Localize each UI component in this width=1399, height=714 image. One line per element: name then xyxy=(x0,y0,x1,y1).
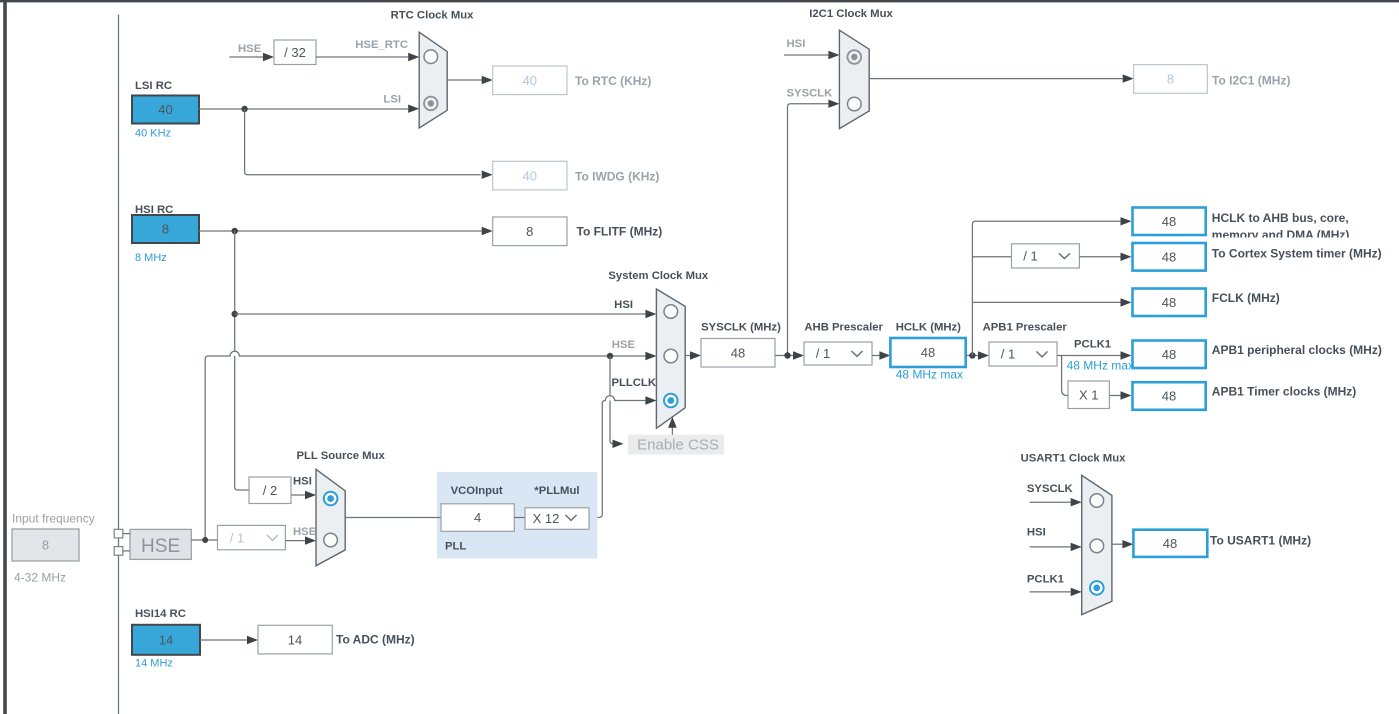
wire PCLK1 stub to USART1 mux xyxy=(1030,591,1071,593)
svg-text:40 KHz: 40 KHz xyxy=(135,128,171,140)
wire VCOInput to PLLMul xyxy=(514,517,525,519)
wire bus to FCLK xyxy=(972,301,1120,303)
svg-text:To Cortex System timer (MHz): To Cortex System timer (MHz) xyxy=(1212,247,1382,261)
wire PCLK1 xyxy=(1057,355,1121,357)
svg-text:X 1: X 1 xyxy=(1079,388,1099,403)
output To IWDG (KHz) xyxy=(493,161,660,190)
svg-text:48: 48 xyxy=(1162,347,1176,362)
svg-text:FCLK (MHz): FCLK (MHz) xyxy=(1212,291,1280,305)
register VCOInput xyxy=(441,504,514,532)
svg-text:To ADC (MHz): To ADC (MHz) xyxy=(336,632,415,646)
svg-text:HSI: HSI xyxy=(787,38,806,50)
svg-text:48: 48 xyxy=(1163,536,1177,551)
multiplier X1 xyxy=(1068,381,1109,409)
junction HSE output xyxy=(202,537,208,543)
svg-text:/ 1: / 1 xyxy=(1023,249,1037,264)
svg-text:To RTC (KHz): To RTC (KHz) xyxy=(575,74,651,88)
svg-text:VCOInput: VCOInput xyxy=(451,485,503,497)
vertical source rail xyxy=(118,15,120,714)
svg-text:HSE: HSE xyxy=(293,526,317,538)
svg-text:HCLK (MHz): HCLK (MHz) xyxy=(896,321,961,333)
source HSE xyxy=(130,529,191,559)
wire HSI stub to USART1 mux xyxy=(1030,546,1071,548)
divider /2 xyxy=(249,477,291,504)
dropdown HSE prescaler /1 (disabled) xyxy=(218,525,286,549)
wire SYSCLK to AHB prescaler xyxy=(775,355,793,357)
svg-text:APB1 Prescaler: APB1 Prescaler xyxy=(983,322,1068,334)
wire RTC mux output xyxy=(447,79,482,81)
mux PLL Source Mux xyxy=(296,450,385,566)
svg-text:*PLLMul: *PLLMul xyxy=(534,485,579,497)
svg-text:Enable CSS: Enable CSS xyxy=(637,436,719,453)
svg-text:APB1 Timer clocks (MHz): APB1 Timer clocks (MHz) xyxy=(1212,384,1357,398)
register SYSCLK (MHz) xyxy=(701,321,781,367)
svg-text:/ 2: / 2 xyxy=(263,483,277,498)
svg-text:40: 40 xyxy=(158,102,172,117)
svg-text:PLL: PLL xyxy=(445,541,466,553)
svg-text:X 12: X 12 xyxy=(533,511,560,526)
source HSI RC xyxy=(132,204,199,264)
block PLL xyxy=(437,472,598,559)
source HSI14 RC xyxy=(132,608,200,669)
output To I2C1 (MHz) xyxy=(1134,65,1291,94)
svg-text:HCLK to AHB bus, core,: HCLK to AHB bus, core, xyxy=(1212,211,1349,225)
svg-text:SYSCLK (MHz): SYSCLK (MHz) xyxy=(701,321,781,333)
svg-text:AHB Prescaler: AHB Prescaler xyxy=(804,321,883,333)
wire SYSCLK to I2C1 mux xyxy=(788,104,829,356)
svg-text:Input frequency: Input frequency xyxy=(12,511,95,525)
wire PLLCLK to system mux (with hop) xyxy=(605,396,614,401)
svg-text:HSE: HSE xyxy=(141,536,180,557)
svg-text:PCLK1: PCLK1 xyxy=(1027,574,1064,586)
wire HSI vertical branch xyxy=(235,231,249,490)
svg-text:HSE: HSE xyxy=(238,43,262,55)
wire X1 to APB1 timer output xyxy=(1109,395,1120,397)
svg-text:8: 8 xyxy=(162,222,169,237)
output To USART1 (MHz) xyxy=(1133,530,1311,557)
svg-text:14 MHz: 14 MHz xyxy=(135,657,173,669)
svg-text:HSE_RTC: HSE_RTC xyxy=(355,39,408,51)
svg-text:8: 8 xyxy=(526,224,533,239)
control Enable CSS xyxy=(628,435,724,455)
svg-text:SYSCLK: SYSCLK xyxy=(1027,483,1074,495)
junction SYSCLK xyxy=(784,352,790,358)
wire HSE prescaler to PLL mux xyxy=(285,540,305,542)
junction HCLK xyxy=(969,352,975,358)
svg-text:USART1 Clock Mux: USART1 Clock Mux xyxy=(1021,453,1127,465)
svg-text:APB1 peripheral clocks (MHz): APB1 peripheral clocks (MHz) xyxy=(1212,343,1382,357)
wire HSE output xyxy=(191,539,217,541)
output HCLK to AHB bus xyxy=(1133,208,1350,242)
wire Enable CSS to mux (up arrow) xyxy=(671,428,673,435)
junction HSE at system mux xyxy=(607,353,613,359)
svg-text:48 MHz max: 48 MHz max xyxy=(1067,358,1134,372)
svg-text:48 MHz max: 48 MHz max xyxy=(896,367,963,381)
wire LSI to IWDG xyxy=(245,109,481,175)
svg-text:HSI: HSI xyxy=(1027,527,1046,539)
svg-text:14: 14 xyxy=(288,632,302,647)
wire AHB prescaler to HCLK xyxy=(872,355,879,357)
svg-text:LSI RC: LSI RC xyxy=(135,80,172,92)
svg-text:/ 32: / 32 xyxy=(284,45,306,60)
mux System Clock Mux xyxy=(608,270,709,428)
wire SYSCLK stub to USART1 mux xyxy=(1030,501,1071,503)
output To RTC (KHz) xyxy=(493,66,652,95)
svg-text:/ 1: / 1 xyxy=(816,346,830,361)
output To FLITF (MHz) xyxy=(493,217,663,246)
svg-text:/ 1: / 1 xyxy=(1001,347,1015,362)
svg-text:To I2C1 (MHz): To I2C1 (MHz) xyxy=(1212,73,1290,87)
svg-text:48: 48 xyxy=(1162,295,1176,310)
junction HSI at system mux row xyxy=(232,311,238,317)
svg-text:8: 8 xyxy=(42,538,49,553)
dropdown Cortex prescaler /1 xyxy=(1012,244,1080,268)
divider /32 xyxy=(274,40,316,65)
svg-text:PLLCLK: PLLCLK xyxy=(611,377,656,389)
input Input frequency xyxy=(12,511,95,584)
output To Cortex System timer (MHz) xyxy=(1133,243,1382,271)
pin connector lower xyxy=(114,547,123,556)
svg-text:To FLITF (MHz): To FLITF (MHz) xyxy=(577,225,663,239)
register HCLK (MHz) xyxy=(890,321,965,381)
wire HSI14 to ADC xyxy=(200,639,247,641)
svg-text:PLL Source Mux: PLL Source Mux xyxy=(296,450,385,462)
svg-text:48: 48 xyxy=(1162,250,1176,265)
wire connectors to HSE xyxy=(123,534,130,551)
junction HSI xyxy=(232,228,238,234)
wire HSE to Enable CSS xyxy=(610,356,614,444)
svg-text:LSI: LSI xyxy=(383,93,401,105)
dropdown AHB Prescaler /1 xyxy=(804,321,883,365)
wire bus to Cortex prescaler xyxy=(972,256,1011,258)
wire HCLK to APB1 prescaler xyxy=(966,355,978,357)
svg-text:8 MHz: 8 MHz xyxy=(135,252,167,264)
svg-text:System Clock Mux: System Clock Mux xyxy=(608,270,709,282)
wire PLL mux output to VCOInput xyxy=(345,517,441,519)
wire HCLK distribution bus xyxy=(972,221,1120,355)
source LSI RC xyxy=(132,80,199,140)
mux USART1 Clock Mux xyxy=(1021,453,1127,615)
svg-text:4: 4 xyxy=(474,510,481,525)
svg-text:To USART1 (MHz): To USART1 (MHz) xyxy=(1210,534,1311,548)
wire I2C1 mux output xyxy=(869,78,1122,80)
wire USART1 mux output xyxy=(1112,543,1123,545)
svg-text:48: 48 xyxy=(1162,214,1176,229)
svg-text:8: 8 xyxy=(1167,72,1174,87)
wire LSI to RTC mux xyxy=(199,108,408,110)
wire HSI to System Clock Mux xyxy=(235,313,646,315)
svg-text:4-32 MHz: 4-32 MHz xyxy=(14,570,66,584)
output FCLK (MHz) xyxy=(1133,289,1280,317)
svg-text:PCLK1: PCLK1 xyxy=(1074,339,1111,351)
junction LSI xyxy=(241,106,247,112)
svg-text:To IWDG (KHz): To IWDG (KHz) xyxy=(575,170,659,184)
wire HSE vertical and to system mux (with hop) xyxy=(230,351,239,356)
svg-text:RTC Clock Mux: RTC Clock Mux xyxy=(391,9,475,21)
wire PCLK1 to X1 multiplier xyxy=(1062,356,1068,396)
svg-text:SYSCLK: SYSCLK xyxy=(787,88,834,100)
dropdown PLLMul X12 xyxy=(525,508,589,530)
output APB1 peripheral clocks (MHz) xyxy=(1133,341,1382,369)
svg-text:I2C1 Clock Mux: I2C1 Clock Mux xyxy=(809,8,893,20)
output APB1 Timer clocks (MHz) xyxy=(1133,382,1357,410)
wire system mux output xyxy=(685,355,690,357)
wire Cortex prescaler to output xyxy=(1079,256,1120,258)
svg-text:48: 48 xyxy=(921,345,935,360)
pin connector upper xyxy=(114,529,123,538)
output To ADC (MHz) xyxy=(258,625,415,654)
mux RTC Clock Mux xyxy=(391,9,475,128)
svg-text:48: 48 xyxy=(731,346,745,361)
wire /2 to PLL mux xyxy=(291,494,305,496)
svg-text:48: 48 xyxy=(1162,389,1176,404)
svg-text:40: 40 xyxy=(523,73,537,88)
dropdown APB1 Prescaler /1 xyxy=(983,322,1068,367)
svg-text:HSI14 RC: HSI14 RC xyxy=(135,608,186,620)
mux I2C1 Clock Mux xyxy=(809,8,893,129)
wire HSI to FLITF xyxy=(199,230,482,232)
svg-text:HSE: HSE xyxy=(612,339,636,351)
wire HSE to /32 xyxy=(230,56,265,58)
svg-text:14: 14 xyxy=(159,633,173,648)
svg-text:HSI: HSI xyxy=(614,299,633,311)
svg-text:/ 1: / 1 xyxy=(230,530,244,545)
wire HSI stub to I2C1 mux xyxy=(784,54,828,56)
wire HSE_RTC to RTC mux xyxy=(316,56,408,58)
svg-text:40: 40 xyxy=(523,168,537,183)
svg-text:HSI: HSI xyxy=(293,475,312,487)
